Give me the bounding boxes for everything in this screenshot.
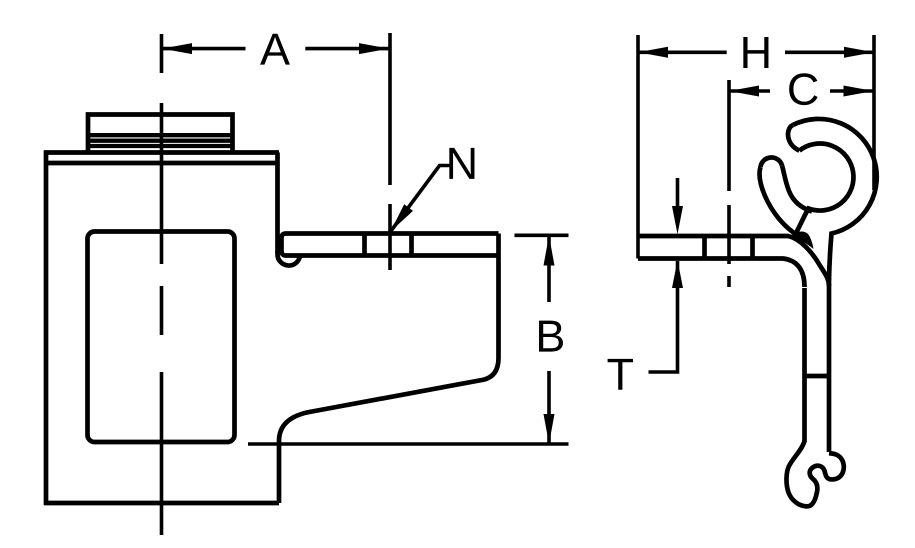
label A — [260, 34, 290, 65]
A dimension left arrowhead — [162, 43, 192, 54]
gusset S-curve from arm end to body bottom — [279, 234, 499, 504]
H dimension left arrowhead — [638, 47, 668, 58]
H dimension line left segment — [638, 50, 727, 54]
cap crimp line 1 — [88, 133, 233, 137]
T up arrow shaft and leader — [649, 261, 678, 372]
ring hook outer arc — [793, 119, 877, 280]
B arrow shaft top — [547, 236, 551, 302]
B down arrowhead — [544, 414, 555, 444]
B bottom extension line — [248, 442, 569, 446]
centerline dash 2 — [160, 103, 164, 264]
strip divider line 1 — [702, 236, 707, 259]
arm bottom edge — [286, 253, 499, 258]
centerline dash 3 — [160, 286, 164, 335]
C extension dash 2 — [727, 205, 731, 264]
B up arrowhead — [544, 236, 555, 266]
label T — [608, 359, 633, 390]
A right extension dash 2 — [388, 204, 392, 270]
cap crimp line 3 — [88, 144, 233, 148]
arm divider line 2 — [409, 234, 414, 256]
cap crimp line 2 — [88, 139, 233, 143]
ring hook inner arc — [794, 144, 854, 238]
centerline dash 4 — [160, 372, 164, 535]
ring hook end cap — [788, 125, 799, 151]
C dimension line right segment — [830, 89, 874, 93]
label C — [789, 73, 817, 105]
bracket body top flange line 1 — [44, 150, 279, 155]
N leader line — [391, 166, 450, 232]
bracket body left edge — [44, 151, 49, 506]
H right extension line — [872, 35, 876, 190]
cap on top of body — [88, 115, 233, 152]
stem tick line — [805, 374, 830, 379]
bracket body right edge — [275, 153, 280, 254]
inner window rectangle — [88, 232, 235, 443]
foot hook outline — [786, 441, 843, 506]
A dimension line left segment — [162, 47, 246, 51]
junction fill wedge — [792, 232, 814, 249]
A dimension right arrowhead — [359, 43, 389, 54]
T down arrow shaft — [676, 178, 680, 215]
label H — [743, 37, 768, 68]
C extension dash 3 — [727, 276, 731, 287]
crescent jaw end cap — [761, 157, 783, 167]
H dimension line right segment — [785, 50, 874, 54]
side view strip top edge with bend into stem right edge — [638, 236, 829, 286]
arm top edge — [286, 231, 499, 236]
C extension dash 1 — [727, 80, 731, 191]
T up arrowhead — [672, 260, 683, 288]
rolled curl under arm end — [277, 251, 300, 266]
side view strip left end — [636, 35, 640, 259]
side view strip bottom edge with bend into stem left edge — [638, 259, 805, 288]
A dimension line right segment — [305, 47, 389, 51]
H dimension right arrowhead — [844, 47, 874, 58]
strip divider line 2 — [750, 236, 755, 259]
label N — [449, 148, 474, 179]
C dimension left arrowhead — [729, 86, 759, 97]
centerline dash 1 — [160, 34, 164, 73]
arm divider line 1 — [362, 234, 367, 256]
bracket body top flange line 2 — [46, 161, 278, 166]
B top extension line — [515, 234, 569, 238]
T down arrowhead — [672, 206, 683, 234]
C dimension right arrowhead — [844, 86, 874, 97]
crescent jaw inner edge — [782, 166, 812, 212]
arm rounded left end — [282, 234, 287, 256]
bracket body bottom edge — [44, 501, 279, 506]
N leader arrowhead — [391, 204, 414, 231]
B arrow shaft bottom — [547, 371, 551, 444]
stem right edge — [827, 278, 832, 452]
label B — [539, 321, 563, 352]
stem left edge — [802, 288, 807, 442]
crescent jaw outer edge — [760, 167, 800, 237]
C dimension line left segment — [729, 89, 770, 93]
A right extension dash 1 — [388, 33, 392, 185]
